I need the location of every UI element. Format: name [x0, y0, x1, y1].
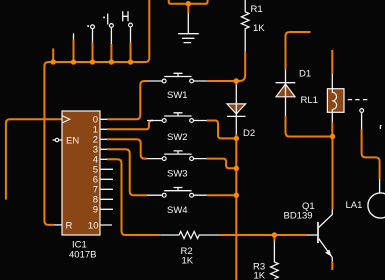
svg-text:RL1: RL1 — [301, 95, 318, 106]
svg-text:D1: D1 — [299, 69, 311, 80]
svg-text:1K: 1K — [254, 271, 266, 280]
svg-text:R: R — [66, 220, 73, 231]
svg-text:BD139: BD139 — [284, 210, 313, 221]
svg-text:SW3: SW3 — [167, 169, 188, 180]
svg-text:D2: D2 — [243, 128, 255, 139]
svg-text:SW2: SW2 — [167, 132, 188, 143]
svg-text:SW4: SW4 — [167, 205, 188, 216]
svg-text:1K: 1K — [182, 256, 194, 267]
svg-text:LA1: LA1 — [346, 200, 363, 211]
svg-text:4017B: 4017B — [69, 250, 96, 261]
svg-text:9: 9 — [93, 205, 98, 216]
svg-text:SW1: SW1 — [167, 90, 188, 101]
svg-text:1K: 1K — [253, 23, 265, 34]
svg-text:10: 10 — [88, 220, 99, 231]
svg-text:R1: R1 — [251, 4, 263, 15]
svg-text:EN: EN — [66, 135, 79, 146]
